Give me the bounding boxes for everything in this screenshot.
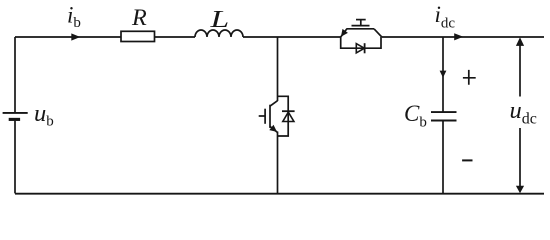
IGBT Q1 body bar bbox=[346, 28, 374, 30]
left vertical wire lower bbox=[14, 121, 16, 194]
IGBT Q2 gate bar bbox=[264, 109, 266, 124]
svg-text:ib: ib bbox=[67, 2, 81, 31]
wire middle branch upper bbox=[277, 37, 279, 101]
bottom wire bbox=[15, 193, 544, 195]
wire capacitor branch lower bbox=[442, 121, 444, 194]
capacitor C_b bottom plate bbox=[431, 120, 457, 122]
plus sign bbox=[463, 70, 476, 85]
IGBT Q1 gate lead bbox=[360, 20, 362, 26]
minus sign bbox=[462, 159, 472, 161]
IGBT Q2 emitter slant bbox=[270, 126, 278, 132]
current arrow i_dc bbox=[454, 33, 463, 40]
wire top segment right bbox=[382, 36, 544, 38]
IGBT Q1 emitter arrowhead bbox=[341, 29, 348, 37]
IGBT Q2 gate lead bbox=[259, 115, 265, 117]
capacitor C_b top plate bbox=[431, 111, 457, 113]
IGBT Q2 collector slant bbox=[270, 101, 278, 107]
diode D1 cathode bar bbox=[364, 43, 366, 53]
diode D2 cathode bar bbox=[282, 110, 295, 112]
resistor R bbox=[121, 31, 155, 41]
svg-text:L: L bbox=[209, 6, 229, 32]
diode D1 triangle bbox=[356, 44, 364, 53]
IGBT Q1 gate tick bbox=[356, 19, 366, 21]
IGBT Q1 gate bar bbox=[352, 25, 370, 27]
IGBT Q2 emitter arrowhead bbox=[269, 125, 277, 132]
wire resistor to inductor bbox=[155, 36, 196, 38]
current arrow i_b bbox=[71, 33, 80, 40]
IGBT Q1 emitter slant bbox=[341, 29, 347, 37]
battery u_b long plate bbox=[3, 112, 28, 114]
u_dc arrowhead down bbox=[516, 186, 524, 194]
wire inductor to IGBT node bbox=[243, 36, 341, 38]
svg-text:Cb: Cb bbox=[404, 101, 427, 131]
diode D2 bypass loop bbox=[278, 96, 289, 136]
wire top segment left bbox=[15, 36, 121, 38]
inductor L bbox=[195, 30, 243, 37]
diode D1 bypass loop bbox=[341, 37, 381, 48]
IGBT Q2 body bar bbox=[269, 105, 271, 128]
svg-text:R: R bbox=[131, 5, 147, 30]
u_dc arrow up shaft bbox=[519, 45, 521, 97]
left vertical wire upper bbox=[14, 37, 16, 112]
wire middle branch lower bbox=[277, 132, 279, 194]
wire capacitor branch upper bbox=[442, 37, 444, 112]
svg-text:udc: udc bbox=[510, 97, 537, 128]
battery u_b short plate bbox=[9, 118, 20, 121]
u_dc arrow down shaft bbox=[519, 128, 521, 187]
u_dc arrowhead up bbox=[516, 37, 524, 46]
diode D2 triangle bbox=[283, 112, 294, 121]
svg-text:idc: idc bbox=[435, 2, 456, 32]
svg-text:ub: ub bbox=[34, 100, 54, 130]
IGBT Q1 collector slant bbox=[374, 29, 382, 37]
current arrow into capacitor bbox=[440, 71, 447, 78]
